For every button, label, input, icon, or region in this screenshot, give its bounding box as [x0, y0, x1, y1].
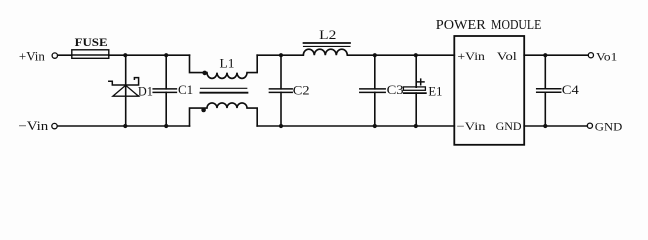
wire: fuse to L1 [109, 54, 190, 56]
node Vo1 label [596, 49, 617, 63]
inductor L1 top phase dot [202, 71, 207, 76]
power module U1 title MODULE [491, 17, 541, 32]
capacitor C3 label [387, 82, 404, 97]
capacitor C4 top leg [544, 55, 546, 88]
svg-text:C1: C1 [178, 82, 193, 97]
capacitor E1 label [428, 83, 442, 98]
power module U1 pin GND [496, 119, 522, 133]
capacitor C4 label [562, 82, 580, 97]
svg-text:L1: L1 [220, 55, 235, 70]
power module U1 pin -Vin [457, 119, 486, 133]
inductor L2 core lines [304, 42, 351, 44]
capacitor C4 bottom leg [544, 92, 546, 126]
fuse FUSE body [72, 50, 109, 59]
capacitor C3 plates [360, 88, 385, 90]
junction dot bottom of D1 [123, 124, 127, 128]
junction dot bottom of C4 [543, 124, 547, 128]
wire top rail L1 to L2 [257, 54, 303, 56]
svg-text:FUSE: FUSE [75, 35, 108, 49]
capacitor E1 top plate (hollow) [403, 87, 425, 90]
node GND label [595, 119, 623, 133]
svg-text:−Vin: −Vin [457, 119, 486, 133]
capacitor C3 top leg [374, 55, 376, 89]
svg-text:C2: C2 [293, 82, 310, 97]
capacitor C1 bottom leg [165, 92, 167, 126]
capacitor C1 label [178, 82, 193, 97]
fuse FUSE value label [75, 35, 108, 49]
wire module Vol to Vo1 terminal [524, 54, 588, 56]
inductor L2 winding [303, 49, 347, 55]
inductor L1 top winding [190, 55, 258, 78]
inductor L2 label [319, 27, 336, 42]
inductor L1 bottom phase dot [201, 108, 206, 113]
power module U1 title POWER [436, 17, 487, 32]
wire module GND to GND terminal [524, 125, 587, 127]
svg-text:−Vin: −Vin [18, 119, 49, 133]
junction dot top of C4 [543, 53, 547, 57]
fuse FUSE through-line [72, 54, 109, 56]
junction dot bottom of E1 [414, 124, 418, 128]
svg-text:GND: GND [595, 119, 623, 133]
capacitor C4 plates [537, 88, 561, 90]
junction dot top of C3 [373, 53, 377, 57]
svg-text:E1: E1 [428, 83, 442, 98]
capacitor C2 top leg [280, 55, 282, 89]
svg-text:C3: C3 [387, 82, 404, 97]
svg-text:+Vin: +Vin [19, 49, 46, 63]
svg-text:Vol: Vol [497, 49, 518, 63]
capacitor E1 bottom plate [404, 92, 426, 94]
svg-text:L2: L2 [319, 27, 336, 42]
wire top rail L2 to module [347, 54, 454, 56]
junction dot bottom of C1 [164, 124, 168, 128]
svg-text:POWER: POWER [436, 17, 487, 32]
capacitor E1 bottom leg [415, 93, 417, 126]
svg-text:+Vin: +Vin [457, 49, 485, 63]
diode D1 label [138, 84, 153, 99]
inductor L1 core lines [201, 87, 247, 89]
diode D1 vertical wire [125, 55, 127, 126]
junction dot bottom of C3 [373, 124, 377, 128]
node GND terminal circle [587, 123, 592, 128]
svg-text:MODULE: MODULE [491, 17, 541, 32]
svg-text:GND: GND [496, 119, 522, 133]
capacitor C2 label [293, 82, 310, 97]
capacitor C1 top leg [165, 55, 167, 89]
diode D1 zener cathode bar with hooks [109, 78, 139, 85]
node -Vin terminal circle [52, 123, 57, 128]
node -Vin terminal label [18, 119, 49, 133]
junction dot top of E1 [414, 53, 418, 57]
power module U1 box [454, 36, 524, 145]
svg-text:Vo1: Vo1 [596, 49, 617, 63]
wire bottom rail middle [257, 125, 454, 127]
power module U1 pin +Vin [457, 49, 485, 63]
node +Vin terminal label [19, 49, 46, 63]
node +Vin terminal circle [52, 53, 57, 58]
capacitor E1 plus sign [418, 79, 425, 85]
capacitor C2 plates [269, 88, 292, 90]
inductor L1 bottom winding [190, 103, 258, 126]
svg-text:D1: D1 [138, 84, 153, 99]
power module U1 pin Vol [497, 49, 518, 63]
capacitor E1 top leg [415, 55, 417, 87]
capacitor C2 bottom leg [280, 92, 282, 126]
wire bottom-left rail [57, 125, 189, 127]
capacitor C3 bottom leg [374, 92, 376, 126]
junction dot top of C1 [164, 53, 168, 57]
junction dot top of D1 [123, 53, 127, 57]
node Vo1 terminal circle [588, 53, 593, 58]
diode D1 triangle [113, 85, 139, 96]
svg-text:C4: C4 [562, 82, 580, 97]
junction dot bottom of C2 [279, 124, 283, 128]
junction dot top of C2 [279, 53, 283, 57]
wire top-left: terminal to fuse [58, 54, 72, 56]
capacitor C1 plates [153, 88, 176, 90]
inductor L1 label [220, 55, 235, 70]
